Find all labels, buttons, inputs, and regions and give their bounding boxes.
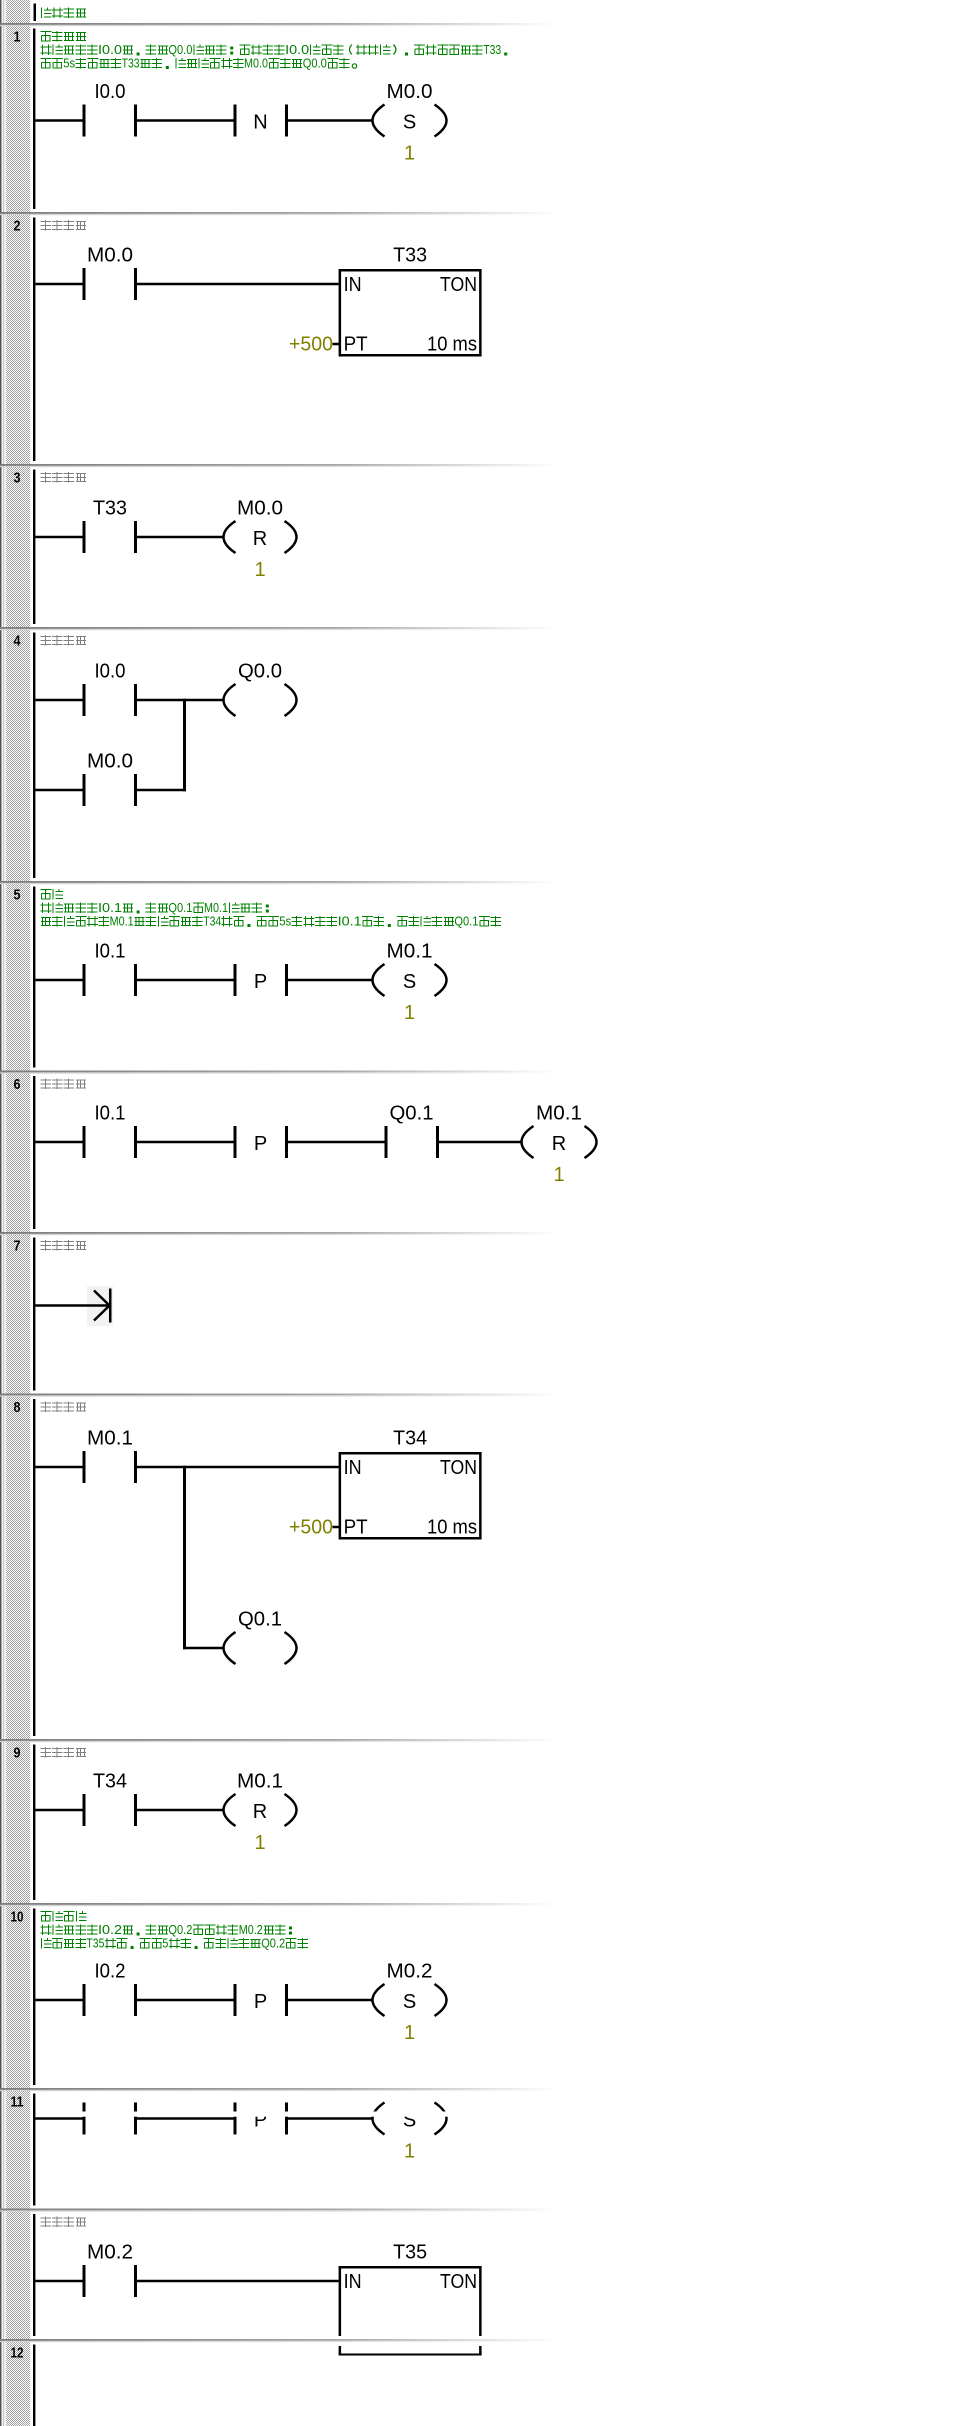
svg-text:Q0.1: Q0.1 [454,914,478,929]
svg-text:1: 1 [404,1002,415,1024]
svg-text:T34: T34 [203,914,221,929]
svg-text:T35: T35 [86,1936,104,1951]
svg-text:TON: TON [440,2271,477,2293]
svg-text:N: N [253,112,267,134]
svg-text:Q0.1: Q0.1 [168,900,192,915]
svg-text:M0.0: M0.0 [87,751,133,773]
svg-text:10 ms: 10 ms [427,334,477,356]
svg-text:1: 1 [404,143,415,165]
svg-text:3: 3 [14,470,21,487]
svg-text:1: 1 [254,559,265,581]
svg-text:M0.2: M0.2 [87,2242,133,2264]
svg-text:S: S [403,1991,416,2013]
svg-text:M0.1: M0.1 [87,1428,133,1450]
svg-text:R: R [253,528,267,550]
svg-text:Q0.2: Q0.2 [168,1922,192,1937]
svg-text:P: P [254,1133,267,1155]
svg-text:R: R [552,1133,566,1155]
svg-text:5: 5 [14,887,21,904]
svg-text:5: 5 [162,1936,168,1951]
svg-text:I0.2: I0.2 [95,1961,126,1983]
svg-text:IN: IN [344,2271,362,2293]
svg-text:IN: IN [344,274,362,296]
svg-text:I0.0: I0.0 [98,42,122,57]
svg-text:Q0.0: Q0.0 [303,56,327,71]
svg-text:M0.0: M0.0 [237,498,283,520]
svg-text:M0.0: M0.0 [387,81,433,103]
svg-text:T33: T33 [93,498,127,520]
svg-text:S: S [403,971,416,993]
svg-text:P: P [254,1991,267,2013]
svg-text:5s: 5s [279,914,291,929]
svg-text:Q0.0: Q0.0 [168,42,192,57]
svg-text:10 ms: 10 ms [427,1517,477,1539]
svg-text:M0.0: M0.0 [87,245,133,267]
svg-text:T33: T33 [483,42,501,57]
svg-text:M0.1: M0.1 [237,1771,283,1793]
svg-text:9: 9 [14,1745,21,1762]
svg-text:+500: +500 [289,1517,333,1539]
svg-text:Q0.2: Q0.2 [261,1936,285,1951]
svg-text:PT: PT [344,334,368,356]
svg-text:T34: T34 [393,1428,427,1450]
svg-text:M0.2: M0.2 [239,1922,263,1937]
svg-text:I0.0: I0.0 [95,81,126,103]
svg-text:M0.1: M0.1 [387,941,433,963]
svg-text:1: 1 [14,29,21,46]
svg-text:7: 7 [14,1238,21,1255]
svg-text:TON: TON [440,1457,477,1479]
svg-text:T33: T33 [393,245,427,267]
svg-text:Q0.1: Q0.1 [238,1609,282,1631]
svg-text:IN: IN [344,1457,362,1479]
svg-text:M0.0: M0.0 [244,56,268,71]
svg-text:1: 1 [404,2141,415,2163]
svg-text:2: 2 [14,218,21,235]
svg-text:+500: +500 [289,334,333,356]
svg-text:10: 10 [11,1909,24,1926]
svg-text:T35: T35 [393,2242,427,2264]
svg-text:6: 6 [14,1076,21,1093]
svg-text:I0.1: I0.1 [95,941,126,963]
svg-text:M0.1: M0.1 [110,914,134,929]
svg-text:M0.1: M0.1 [536,1103,582,1125]
svg-text:M0.2: M0.2 [387,1961,433,1983]
svg-text:I0.1: I0.1 [338,914,362,929]
svg-text:Q0.1: Q0.1 [390,1103,434,1125]
svg-text:8: 8 [14,1399,21,1416]
svg-text:1: 1 [553,1164,564,1186]
svg-text:5s: 5s [63,56,75,71]
svg-text:11: 11 [11,2094,24,2111]
svg-text:S: S [403,112,416,134]
svg-text:P: P [254,971,267,993]
svg-text:T33: T33 [122,56,140,71]
svg-text:12: 12 [11,2345,24,2362]
svg-text:I0.0: I0.0 [95,661,126,683]
svg-text:PT: PT [344,1517,368,1539]
svg-text:1: 1 [404,2022,415,2044]
svg-text:1: 1 [254,1832,265,1854]
svg-text:I0.1: I0.1 [95,1103,126,1125]
svg-text:4: 4 [14,633,22,650]
svg-text:TON: TON [440,274,477,296]
svg-text:T34: T34 [93,1771,127,1793]
svg-text:Q0.0: Q0.0 [238,661,282,683]
svg-text:R: R [253,1801,267,1823]
